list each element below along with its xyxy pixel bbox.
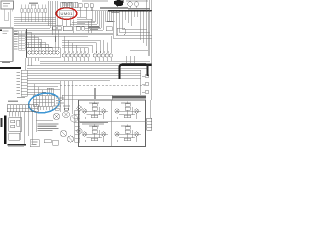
transistor Q13c — [86, 54, 89, 57]
note warning text — [38, 124, 59, 132]
wire drops below U1 — [62, 17, 73, 33]
heat sink board box — [62, 95, 112, 100]
fuse F1 row labels — [111, 8, 150, 13]
wire drops from CN5 — [10, 112, 37, 144]
label right of ellipse — [56, 98, 64, 104]
transistor Q6 — [45, 51, 48, 54]
annotation red ellipse — [56, 8, 76, 20]
amplifier section label — [81, 27, 112, 31]
hatch ticks above Q rows — [31, 49, 109, 54]
transistor Q21 — [130, 2, 139, 8]
label above U1 — [62, 3, 72, 6]
transistor Q30 — [53, 113, 59, 119]
capacitor bank C20 above U1 — [61, 2, 78, 8]
power transformer T1 black mark — [114, 0, 124, 6]
ground bus thick left — [0, 67, 21, 69]
power bus bar black — [4, 116, 7, 145]
resistor network RN1 row — [21, 9, 47, 13]
label group bottom-mid — [53, 106, 70, 111]
transistor Q31 — [63, 111, 70, 118]
wire right edge vertical — [148, 12, 152, 118]
svg-text:UM01: UM01 — [61, 11, 74, 16]
transistor Q8 — [52, 51, 55, 54]
bus wires top-left — [14, 17, 95, 23]
transistor Q14 — [93, 54, 96, 57]
connector J1 title block — [1, 1, 14, 9]
transistor Q40 stack right — [140, 70, 149, 95]
transistor Q20 — [128, 2, 132, 6]
resistor R5 box — [28, 42, 40, 47]
amp cell A circuit — [82, 102, 108, 120]
capacitor C10 — [8, 133, 27, 147]
connector CN2 grid — [19, 31, 26, 51]
IC U1 highlighted box — [60, 11, 74, 17]
transistor Q11 — [70, 54, 73, 57]
speaker SP1 — [77, 106, 82, 111]
driver board box left — [27, 29, 61, 58]
terminal block TB1 — [1, 118, 3, 127]
connector CN6 right edge — [147, 118, 152, 130]
transistor Q9 — [62, 54, 65, 57]
transistor Q17 — [105, 54, 108, 57]
transistor Q1 — [28, 51, 31, 54]
transistor Q13 — [78, 54, 81, 57]
label top text row — [82, 0, 148, 1]
resistor R30 — [44, 140, 58, 146]
transistor Q8b — [56, 51, 59, 54]
left tall pcb box — [0, 28, 13, 61]
transistor Q31b — [70, 115, 77, 122]
transistor Q2 — [31, 51, 34, 54]
resistor R20 — [9, 118, 22, 132]
connector CN5 long strip — [7, 105, 38, 112]
label SW board — [2, 62, 10, 63]
transistor Q12 — [74, 54, 77, 57]
wire legs below Q row — [64, 57, 111, 61]
label main board — [8, 101, 18, 102]
bus wires lower band — [27, 61, 150, 81]
connector CN3 column — [21, 70, 27, 96]
label bar dark — [112, 95, 146, 98]
connector CN4 grid in blue — [33, 96, 54, 111]
amp cell D circuit — [115, 125, 142, 143]
terminal strip TS1 — [75, 110, 80, 142]
output board outer box — [79, 100, 146, 147]
capacitor C1 comb — [47, 88, 53, 95]
wire drops to output stage — [61, 81, 73, 114]
wire drops x80-92 — [80, 7, 92, 21]
resistor R10 row — [52, 26, 80, 31]
wire AC mains thick — [100, 8, 152, 11]
wire drops into CN4 — [34, 84, 42, 96]
wire from J1 down — [4, 9, 12, 27]
transistor Q4 — [38, 51, 41, 54]
wire L-bends to amp section — [70, 21, 115, 30]
wire stubs top right — [146, 0, 152, 11]
transistor Q13b — [82, 54, 85, 57]
IC U2 pin field — [14, 31, 17, 50]
bus wires mid-left — [14, 26, 113, 37]
relay RY1 small box — [117, 28, 125, 35]
wire across mid — [36, 120, 53, 122]
wire dashed signal — [60, 85, 145, 87]
wire bus to power board — [77, 11, 111, 31]
wire fanout from CN2 — [26, 30, 59, 50]
wire vertical drops from RN1 — [22, 5, 46, 23]
transistor Q32 — [60, 130, 66, 136]
wire risers above CN3 — [26, 58, 39, 70]
transistor Q16 — [101, 54, 104, 57]
amp cell C circuit — [82, 125, 108, 143]
transistor Q5 — [42, 51, 45, 54]
speaker cable thick — [95, 65, 152, 99]
transistor Q3 — [35, 51, 38, 54]
nested wire loop right — [88, 12, 152, 64]
transistor Q10 — [66, 54, 69, 57]
diode D1 group top — [78, 4, 93, 11]
transistor Q17b — [109, 54, 112, 57]
relay RY2 box — [30, 140, 39, 147]
transistor Q33 — [67, 136, 73, 142]
signal wires L-shaped — [62, 36, 111, 53]
vertical trunk wires x50-60 — [48, 1, 58, 42]
label CN3 pin names — [17, 72, 26, 98]
transistor Q15 — [97, 54, 100, 57]
label mid band — [80, 122, 108, 125]
wire fanout CN3 — [27, 84, 60, 95]
speaker SP2 — [77, 128, 82, 133]
transistor Q7 — [49, 51, 52, 54]
label TUNER text — [29, 3, 38, 6]
amp cell B circuit — [115, 102, 142, 120]
annotation blue ellipse — [27, 91, 61, 115]
